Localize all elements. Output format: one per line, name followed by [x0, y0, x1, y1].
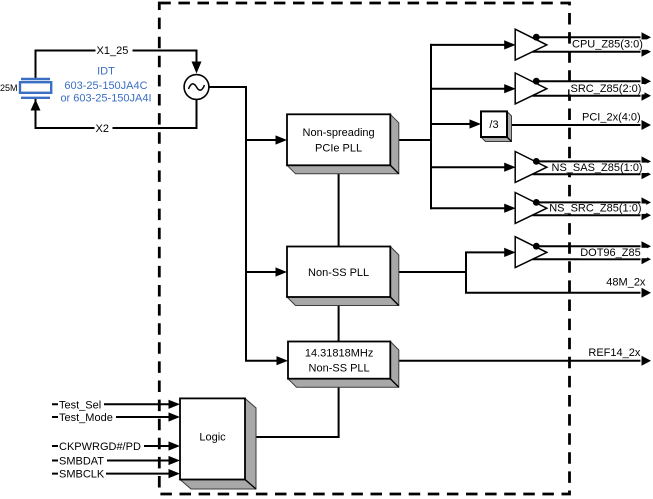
- svg-text:X1_25: X1_25: [97, 45, 129, 57]
- label SRC_Z85(2:0): [570, 84, 645, 94]
- svg-text:48M_2x: 48M_2x: [606, 276, 646, 288]
- wire: branch to Non-SS PLL: [246, 271, 277, 273]
- svg-text:Logic: Logic: [199, 432, 226, 444]
- divider /3: [481, 111, 512, 141]
- wire: right distribution trunk: [430, 44, 432, 209]
- PLL block U3: 14.31818MHz Non-SS PLL: [288, 342, 399, 388]
- svg-text:SMBDAT: SMBDAT: [59, 456, 104, 468]
- svg-text:PCIe PLL: PCIe PLL: [315, 142, 362, 154]
- label Test_Mode: [58, 413, 116, 423]
- svg-text:14.31818MHz: 14.31818MHz: [305, 347, 374, 359]
- svg-text:DOT96_Z85: DOT96_Z85: [580, 247, 641, 259]
- input wire Test_Sel: [52, 403, 170, 405]
- label NS_SAS_Z85(1:0): [551, 163, 648, 173]
- input wire CKPWRGD#/PD: [52, 445, 170, 447]
- wire NS_SAS_Z85(1:0) complement output: [533, 173, 641, 175]
- dashed device boundary: [159, 3, 569, 494]
- oscillator (sine source): [184, 75, 209, 100]
- input wire SMBCLK: [52, 473, 170, 475]
- svg-text:25M: 25M: [0, 83, 18, 93]
- svg-text:REF14_2x: REF14_2x: [588, 347, 640, 359]
- inversion dot on DOT96_Z85: [533, 243, 540, 250]
- output buffer DOT96_Z85: [515, 237, 547, 268]
- label X1_25: [96, 46, 133, 56]
- svg-text:SMBCLK: SMBCLK: [59, 469, 105, 481]
- wire CPU_Z85(3:0) true output: [536, 36, 640, 38]
- wire: PCI_2x output line from /3: [507, 124, 641, 126]
- inversion dot on NS_SAS_Z85(1:0): [533, 158, 540, 165]
- svg-text:CKPWRGD#/PD: CKPWRGD#/PD: [59, 441, 141, 453]
- label X2: [95, 124, 113, 134]
- output buffer SRC_Z85(2:0): [515, 73, 547, 104]
- input wire SMBDAT: [52, 460, 170, 462]
- svg-text:X2: X2: [96, 123, 109, 135]
- inversion dot on NS_SRC_Z85(1:0): [533, 199, 540, 206]
- label SMBDAT: [58, 456, 107, 466]
- label CKPWRGD#/PD: [58, 442, 144, 452]
- wire NS_SRC_Z85(1:0) complement output: [533, 214, 641, 216]
- svg-text:IDT: IDT: [97, 66, 115, 78]
- label NS_SRC_Z85(1:0): [548, 204, 646, 214]
- wire: REF14 output line: [390, 360, 640, 362]
- output buffer NS_SAS_Z85(1:0): [515, 152, 547, 183]
- wire: PCIe PLL output to right trunk: [390, 139, 431, 141]
- wire DOT96_Z85 true output: [536, 245, 640, 247]
- svg-text:SRC_Z85(2:0): SRC_Z85(2:0): [571, 83, 642, 95]
- label Test_Sel: [58, 400, 104, 410]
- wire: branch to PCIe PLL: [246, 139, 277, 141]
- output buffer CPU_Z85(3:0): [515, 29, 547, 60]
- wire: branch to SRC buffer: [430, 88, 505, 90]
- wire: oscillator output trunk: [209, 87, 277, 361]
- logic block: [180, 398, 256, 489]
- input wire Test_Mode: [52, 416, 170, 418]
- inversion dot on SRC_Z85(2:0): [533, 78, 540, 85]
- wire SRC_Z85(2:0) complement output: [533, 95, 641, 97]
- wire: 48M_2x output line: [466, 272, 641, 293]
- crystal Y1 25M: [21, 78, 50, 80]
- svg-text:CPU_Z85(3:0): CPU_Z85(3:0): [572, 39, 643, 51]
- inversion dot on CPU_Z85(3:0): [533, 34, 540, 41]
- svg-text:PCI_2x(4:0): PCI_2x(4:0): [582, 111, 641, 123]
- label SMBCLK: [58, 469, 106, 479]
- svg-text:Test_Sel: Test_Sel: [59, 399, 101, 411]
- wire: branch to NS_SRC buffer: [430, 207, 505, 209]
- wire: logic output horizontal: [245, 436, 340, 438]
- svg-text:NS_SRC_Z85(1:0): NS_SRC_Z85(1:0): [549, 203, 641, 215]
- svg-text:Non-spreading: Non-spreading: [303, 127, 375, 139]
- svg-text:Non-SS PLL: Non-SS PLL: [309, 362, 370, 374]
- svg-text:/3: /3: [489, 119, 498, 131]
- wire: branch to /3 divider: [430, 123, 472, 125]
- wire: logic control line up through PLLs: [338, 165, 340, 437]
- wire X2 net: crystal bottom to oscillator bottom: [36, 99, 197, 128]
- svg-text:or 603-25-150JA4I: or 603-25-150JA4I: [60, 93, 151, 105]
- svg-text:Test_Mode: Test_Mode: [59, 412, 113, 424]
- wire: branch to NS_SAS buffer: [430, 166, 505, 168]
- label DOT96_Z85: [579, 248, 647, 258]
- label CPU_Z85(3:0): [571, 39, 647, 49]
- wire X1_25 net: crystal top to oscillator: [36, 51, 197, 79]
- PLL block U1: Non-spreading PCIe PLL: [287, 114, 399, 174]
- wire NS_SRC_Z85(1:0) true output: [536, 201, 640, 203]
- wire: branch to CPU buffer: [430, 44, 505, 46]
- wire NS_SAS_Z85(1:0) true output: [536, 160, 640, 162]
- svg-text:NS_SAS_Z85(1:0): NS_SAS_Z85(1:0): [552, 162, 643, 174]
- wire CPU_Z85(3:0) complement output: [533, 51, 641, 53]
- wire SRC_Z85(2:0) true output: [536, 80, 640, 82]
- PLL block U2: Non-SS PLL: [287, 247, 399, 306]
- svg-text:603-25-150JA4C: 603-25-150JA4C: [64, 80, 147, 92]
- svg-text:Non-SS PLL: Non-SS PLL: [308, 267, 369, 279]
- wire DOT96_Z85 complement output: [533, 258, 641, 260]
- wire: Non-SS PLL output: [390, 252, 505, 272]
- output buffer NS_SRC_Z85(1:0): [515, 193, 547, 224]
